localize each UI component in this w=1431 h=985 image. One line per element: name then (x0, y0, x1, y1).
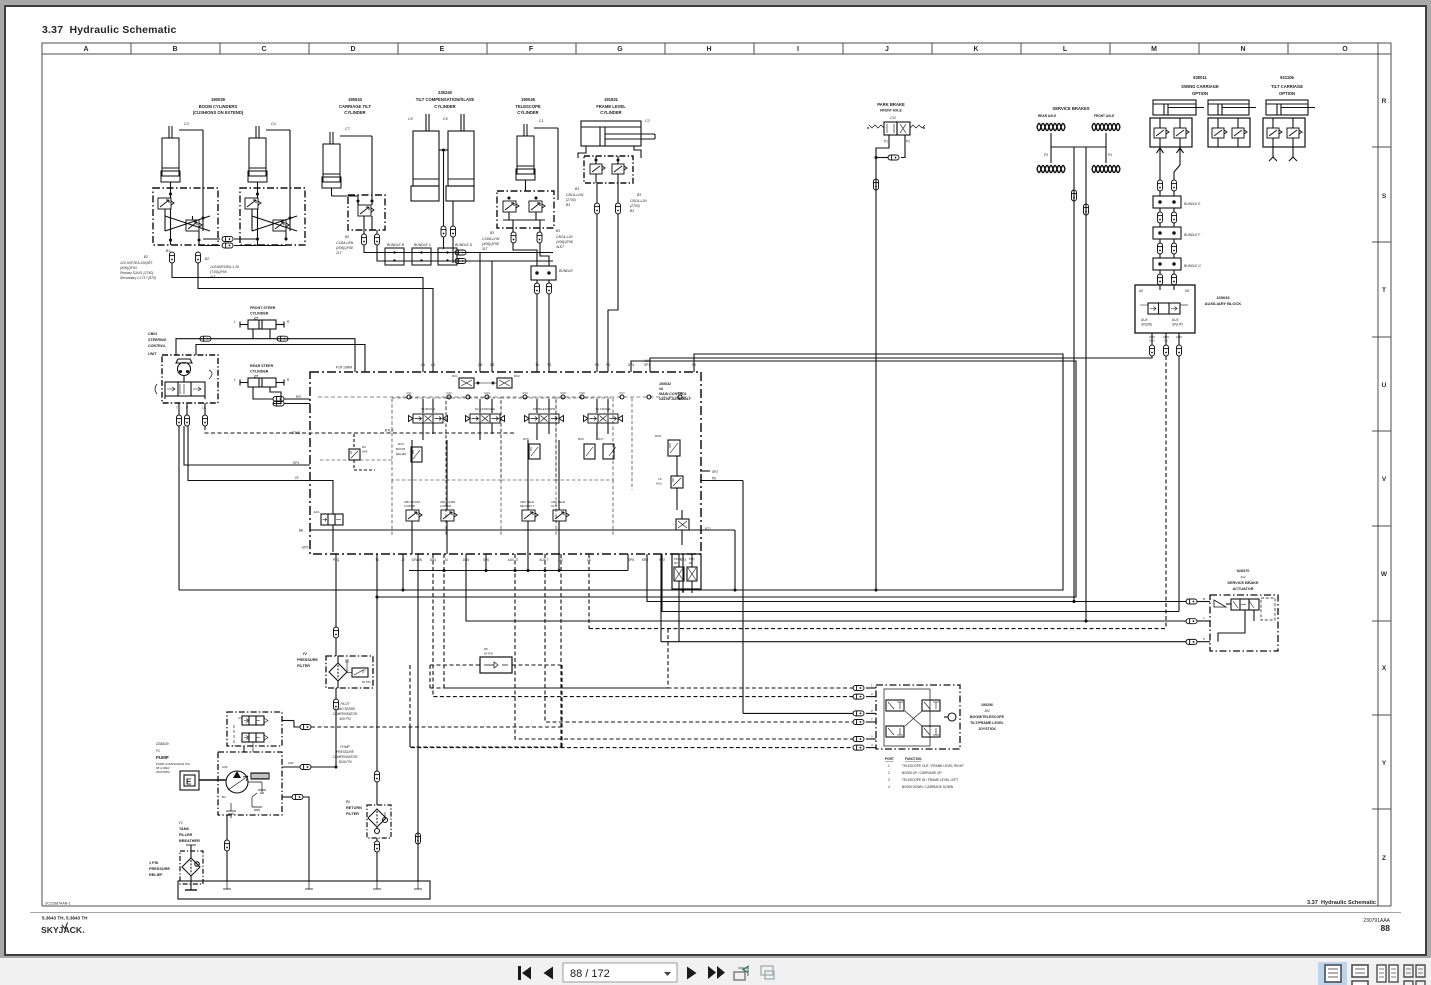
svg-text:BTLB: BTLB (385, 429, 394, 433)
svg-text:BREATHER: BREATHER (179, 839, 200, 843)
junction box 2 (412, 248, 431, 265)
svg-text:P: P (871, 709, 873, 713)
junction box 1 (385, 248, 404, 265)
internal dashed sections (320, 398, 632, 535)
connector joy T (853, 720, 864, 725)
wire slave drops (443, 237, 445, 249)
svg-text:CONTROL: CONTROL (148, 344, 166, 348)
svg-text:RV6: RV6 (578, 437, 584, 441)
svg-text:TELESCOPE OUT / FRAME LEVEL RI: TELESCOPE OUT / FRAME LEVEL RIGHT (902, 764, 964, 768)
port function table (885, 757, 964, 789)
grid column letters (83, 46, 1348, 53)
frame note left (566, 187, 584, 207)
svg-text:C3: C3 (184, 122, 189, 126)
svg-text:RETURN: RETURN (346, 806, 362, 810)
svg-text:RV8: RV8 (655, 434, 661, 438)
svg-text:(2700): (2700) (566, 198, 576, 202)
wire slave link (439, 149, 448, 151)
svg-text:STEERING: STEERING (148, 338, 167, 342)
junction row bus (384, 252, 553, 254)
svg-text:B3: B3 (630, 209, 634, 213)
pilot valve R4 (349, 434, 375, 470)
wire CB drop (466, 261, 492, 372)
frame level title (596, 97, 626, 115)
two page continuous (1404, 965, 1425, 985)
frame relief valves (578, 437, 616, 459)
svg-text:LB: LB (431, 363, 435, 367)
connector steer T (177, 415, 182, 426)
svg-text:LA: LA (421, 363, 426, 367)
svg-text:C12: C12 (890, 116, 896, 120)
svg-text:S3 TELESCOPE: S3 TELESCOPE (533, 407, 555, 411)
svg-text:CBCA-LJN: CBCA-LJN (630, 199, 647, 203)
svg-text:SERVICE BRAKE: SERVICE BRAKE (1227, 581, 1259, 585)
svg-text:C2: C2 (645, 119, 650, 123)
connector filter (334, 699, 339, 710)
svg-text:W: W (1381, 571, 1388, 578)
joystick 190256 (876, 685, 960, 749)
svg-text:B3: B3 (575, 187, 579, 191)
wire manifold T1 drop to return filter (376, 554, 378, 597)
svg-text:SP5: SP5 (628, 558, 634, 562)
pilot comp line (282, 720, 294, 722)
svg-text:PORT: PORT (885, 757, 894, 761)
priority valve EV1 (314, 510, 343, 525)
svg-text:T: T (1382, 287, 1386, 294)
svg-text:190039: 190039 (211, 97, 226, 102)
connector steer run 1 (200, 336, 211, 341)
svg-text:P3: P3 (1044, 153, 1048, 157)
connector aux SP1 (1150, 345, 1155, 356)
svg-text:12X.6XF2EA-03/QBT: 12X.6XF2EA-03/QBT (120, 261, 153, 265)
wire steer top runs (176, 339, 355, 372)
svg-text:AUX T: AUX T (539, 558, 548, 562)
svg-text:B3: B3 (556, 229, 560, 233)
svg-text:(X06)QF68: (X06)QF68 (482, 242, 499, 246)
svg-text:1: 1 (871, 684, 873, 688)
svg-text:C5: C5 (408, 117, 413, 121)
carriage tilt title (339, 97, 371, 115)
svg-text:ACTUATOR: ACTUATOR (1233, 587, 1254, 591)
svg-text:COMPENSATOR: COMPENSATOR (333, 755, 358, 759)
wire TB (539, 228, 541, 232)
svg-text:CV2: CV2 (446, 391, 452, 395)
svg-text:1: 1 (888, 764, 890, 768)
wire aux SP1 long (650, 356, 1152, 372)
actuator port B (1186, 599, 1197, 604)
manifold label (659, 382, 692, 401)
swing cylinder 2 (1208, 100, 1256, 115)
svg-text:RELIEF: RELIEF (396, 452, 407, 456)
connector pilot (300, 725, 311, 730)
svg-text:COMPENSATOR: COMPENSATOR (333, 712, 358, 716)
connector MB (222, 243, 233, 248)
svg-text:BT1: BT1 (705, 527, 711, 531)
svg-text:L: L (1063, 46, 1068, 53)
svg-text:5.3643 TH, 5.3843 TH: 5.3643 TH, 5.3843 TH (42, 916, 88, 921)
boom valve note 2 (205, 257, 239, 279)
svg-text:R4: R4 (362, 445, 366, 449)
svg-text:P6: P6 (712, 477, 716, 481)
telescope valve box (497, 191, 554, 228)
tank (178, 881, 430, 899)
tank breather label (179, 821, 200, 843)
svg-text:L: L (234, 320, 236, 324)
boom spool valve (409, 399, 448, 440)
steering control unit label (148, 332, 167, 356)
pump main box (218, 752, 282, 817)
pump B4 line (282, 796, 292, 798)
svg-text:P2: P2 (906, 140, 910, 144)
wire actuator T run (466, 554, 1186, 621)
svg-text:B2: B2 (144, 255, 148, 259)
connector stack TB2 (547, 283, 552, 294)
svg-text:CYLINDER: CYLINDER (250, 312, 269, 316)
tele note left (482, 231, 500, 251)
two page (1377, 965, 1398, 982)
connector stack FA (595, 203, 600, 214)
service brake actuator label (1227, 569, 1259, 591)
svg-text:T: T (176, 406, 178, 410)
R5 dashed lines (410, 629, 668, 747)
frame spool valve (584, 399, 623, 440)
connector joy 2 (853, 694, 864, 699)
pressure relief F3 (180, 845, 203, 890)
connector stack TA2 (535, 283, 540, 294)
svg-text:88 / 172: 88 / 172 (570, 968, 610, 980)
svg-text:R: R (1382, 98, 1387, 105)
wire BT1 drop (734, 530, 736, 590)
svg-text:CBCA-LJN: CBCA-LJN (556, 235, 573, 239)
svg-text:2: 2 (871, 692, 873, 696)
svg-text:CV6: CV6 (579, 391, 585, 395)
connector park drop (874, 179, 879, 190)
svg-text:LOWER: LOWER (404, 504, 416, 508)
tilt comp title (416, 90, 475, 109)
svg-text:400 PSI: 400 PSI (339, 717, 350, 721)
prev view button (734, 966, 749, 980)
svg-text:CA: CA (478, 363, 483, 367)
connector stack slave A (441, 226, 446, 237)
wire steer P to manifold GP4 (184, 426, 310, 465)
telescope cylinder C1 (516, 124, 535, 180)
return filter label (346, 800, 362, 816)
wire brake drop right (1085, 147, 1087, 621)
aux port drops (1151, 333, 1153, 345)
svg-text:CB01: CB01 (148, 332, 157, 336)
svg-text:FRONT STEER: FRONT STEER (250, 306, 276, 310)
pilot comp note (333, 702, 358, 721)
svg-text:BOOM DOWN / CARRIAGE DOWN: BOOM DOWN / CARRIAGE DOWN (902, 785, 954, 789)
svg-text:4: 4 (888, 785, 890, 789)
svg-text:T: T (871, 718, 873, 722)
connector steer LS (203, 415, 208, 426)
connector brake left (1072, 190, 1077, 201)
svg-text:CF: CF (295, 476, 299, 480)
wire actuator B run (647, 554, 1186, 602)
wire aux L6 run dashed (588, 554, 590, 629)
svg-text:190045: 190045 (521, 97, 536, 102)
svg-text:SP1: SP1 (644, 363, 650, 367)
svg-text:228829: 228829 (156, 742, 169, 746)
svg-text:A4P: A4P (288, 761, 294, 765)
pump label (156, 742, 190, 774)
svg-text:921106: 921106 (1280, 75, 1294, 80)
counterbalance valve row (404, 440, 569, 554)
skyjack logo (41, 923, 84, 936)
wire FB2 (608, 225, 618, 372)
svg-text:Y: Y (1382, 760, 1387, 767)
wire joy 1 run (444, 554, 853, 688)
svg-text:TANK: TANK (179, 827, 190, 831)
svg-text:CARRIAGE TILT: CARRIAGE TILT (339, 104, 371, 109)
svg-text:(X06)QF63: (X06)QF63 (120, 266, 137, 270)
grid column dividers (131, 43, 1378, 54)
svg-text:RV1: RV1 (452, 374, 458, 378)
svg-text:AV6: AV6 (362, 450, 368, 454)
svg-text:PRESSURE: PRESSURE (336, 750, 354, 754)
connector joy 3 (853, 737, 864, 742)
wire manifold P1Q drop to filter (335, 554, 337, 627)
connector rear steer B (273, 401, 284, 406)
actuator port P (1186, 639, 1197, 644)
page number box (563, 963, 677, 982)
svg-text:P1: P1 (884, 140, 888, 144)
svg-text:R: R (287, 320, 290, 324)
svg-text:190256: 190256 (981, 703, 993, 707)
connector swing A (1158, 180, 1163, 191)
svg-text:TILT/FRAME LEVEL: TILT/FRAME LEVEL (970, 721, 1004, 725)
connector park P2 (888, 155, 899, 160)
connector stack TB (537, 232, 542, 243)
wire joy T run dashed (545, 554, 853, 722)
wire TA2 (536, 280, 538, 283)
LS aux valve (656, 456, 683, 510)
svg-text:BUNDLE D: BUNDLE D (455, 243, 473, 247)
connector drain (416, 833, 421, 844)
swing carriage title (1181, 75, 1219, 96)
connector stack CA (362, 234, 367, 245)
tilt carriage stubs (1269, 147, 1277, 161)
telescope title (515, 97, 541, 115)
svg-text:BOOM CYLINDERS: BOOM CYLINDERS (199, 104, 238, 109)
svg-text:#6: #6 (659, 387, 664, 391)
wire LB run (198, 263, 433, 372)
wire cyl C4 to box (257, 182, 259, 188)
connector steer P (185, 415, 190, 426)
wire TB2 (548, 280, 550, 283)
svg-text:BUNDLE: BUNDLE (559, 269, 573, 273)
svg-text:PRESSURE: PRESSURE (297, 658, 318, 662)
tele junction box (531, 266, 556, 280)
wire park brake end (875, 589, 877, 591)
svg-text:REAR STEER: REAR STEER (250, 364, 274, 368)
swing valve box 2 (1208, 118, 1250, 147)
svg-text:CV3: CV3 (484, 391, 490, 395)
footer rule (30, 912, 1401, 914)
rear steer cylinder (234, 378, 290, 387)
wire rear steer ports (253, 387, 273, 399)
wire CF to priority valve (188, 426, 333, 514)
svg-text:4LKT: 4LKT (556, 245, 565, 249)
svg-text:RELIEF: RELIEF (149, 873, 163, 877)
connector return bottom (375, 841, 380, 852)
svg-text:Z: Z (1382, 855, 1386, 862)
svg-text:CXDA-LBN: CXDA-LBN (336, 241, 354, 245)
connector pump A4 (300, 765, 311, 770)
wire actuator P run (660, 554, 662, 642)
wire park brake P1 (876, 140, 889, 590)
E5 aux valve block (672, 554, 701, 642)
svg-text:OPTION: OPTION (1279, 91, 1295, 96)
svg-text:LOAD SENSE: LOAD SENSE (335, 707, 356, 711)
svg-text:D: D (350, 46, 355, 53)
svg-text:EV1: EV1 (314, 510, 320, 514)
prev page button (544, 967, 554, 980)
svg-text:GP4: GP4 (293, 461, 300, 465)
svg-text:SP(UP): SP(UP) (1172, 323, 1183, 327)
front steer cylinder title (250, 306, 276, 321)
frame level cylinder C2 (581, 121, 655, 146)
park brake title (877, 102, 905, 113)
svg-text:FRAME LEVEL: FRAME LEVEL (596, 104, 626, 109)
pump comp note (333, 745, 358, 764)
swing chain jbox 1 (1159, 191, 1161, 196)
wire CA drop (466, 253, 480, 373)
svg-text:TA: TA (535, 363, 540, 367)
connector return top (375, 771, 380, 782)
svg-text:FILTER: FILTER (297, 664, 310, 668)
svg-text:4: 4 (871, 743, 873, 747)
svg-text:C7: C7 (345, 127, 351, 131)
svg-text:BUNDLE F: BUNDLE F (1184, 233, 1201, 237)
svg-text:J61: J61 (983, 709, 990, 713)
svg-text:G: G (617, 46, 623, 53)
svg-text:169032: 169032 (659, 382, 671, 386)
svg-text:3: 3 (871, 735, 873, 739)
connector CA2 (455, 250, 466, 255)
toolbar controls (518, 963, 774, 982)
svg-text:RV7: RV7 (598, 437, 604, 441)
svg-text:K: K (973, 46, 978, 53)
wire P6 loop (179, 354, 1063, 590)
connector B4 (292, 795, 303, 800)
svg-text:VALVE ASSEMBLY: VALVE ASSEMBLY (659, 397, 692, 401)
slave cylinder C6 (446, 114, 474, 201)
wire CB run (376, 230, 378, 234)
svg-text:BOOM UP / CARRIAGE UP: BOOM UP / CARRIAGE UP (902, 771, 942, 775)
aux solenoid valve right (676, 510, 689, 545)
svg-text:A: A (83, 46, 88, 53)
brake coil rear top (1037, 124, 1065, 131)
svg-text:CV4: CV4 (522, 391, 528, 395)
svg-text:B3: B3 (566, 203, 570, 207)
connector chain 2 (1159, 208, 1161, 212)
svg-text:M: M (1151, 46, 1157, 53)
telescope spool valve (525, 399, 564, 440)
wire park brake P2 (901, 140, 905, 158)
svg-text:FILLER: FILLER (179, 833, 193, 837)
main control valve manifold 169032 (310, 372, 701, 554)
connector stack TA (511, 232, 516, 243)
svg-text:TELESCOPE IN / FRAME LEVEL LEF: TELESCOPE IN / FRAME LEVEL LEFT (902, 778, 958, 782)
junction box 3 (438, 248, 457, 265)
svg-text:SKYJACK: SKYJACK (41, 925, 83, 935)
aux block label (1205, 295, 1242, 306)
svg-text:DRAIN: DRAIN (412, 558, 423, 562)
svg-text:B: B (1203, 597, 1205, 601)
svg-text:1CEA6F32EA-1.26: 1CEA6F32EA-1.26 (210, 265, 239, 269)
svg-text:(X06)QF68: (X06)QF68 (556, 240, 573, 244)
carriage tilt cylinder C7 (322, 132, 341, 188)
last page button (708, 966, 725, 979)
pressure filter label (297, 652, 318, 668)
svg-text:CV7: CV7 (619, 391, 625, 395)
tilt port note (335, 235, 354, 255)
tilt carriage valve box (1263, 118, 1305, 147)
wire joy P run (743, 712, 853, 714)
wire pump top (243, 746, 245, 752)
connector swing B (1172, 180, 1177, 191)
svg-text:PILOT: PILOT (340, 702, 350, 706)
svg-text:F2: F2 (179, 821, 183, 825)
side relief valve (655, 434, 680, 456)
svg-text:BUNDLE B: BUNDLE B (387, 243, 405, 247)
svg-text:CYLINDER: CYLINDER (344, 110, 365, 115)
svg-text:FRONT AXLE: FRONT AXLE (880, 109, 902, 113)
svg-text:P4: P4 (1108, 153, 1112, 157)
connector steer run 2 (277, 336, 288, 341)
wire brake drop left (1073, 147, 1075, 602)
svg-text:3: 3 (888, 778, 890, 782)
wire return filter up (376, 597, 378, 771)
svg-text:(X06)QF68: (X06)QF68 (336, 246, 353, 250)
boom relief valve (396, 442, 422, 462)
wire rear steer to manifold (284, 398, 310, 400)
wire tele cyl to box (525, 180, 527, 191)
connector aux L6 (1164, 345, 1169, 356)
row letters (1381, 98, 1388, 862)
svg-text:CYLINDER: CYLINDER (250, 370, 269, 374)
svg-text:H: H (706, 46, 711, 53)
single page (active) (1318, 962, 1347, 985)
R5 check valve (480, 647, 512, 673)
connector aux T (1177, 345, 1182, 356)
wire steer T long to tank bus (178, 426, 180, 590)
svg-text:J4: J4 (444, 558, 448, 562)
svg-text:T: T (1203, 617, 1205, 621)
svg-text:B: B (172, 46, 177, 53)
wire filter down (335, 688, 337, 699)
svg-text:F1: F1 (346, 800, 350, 804)
row letter ticks (1372, 147, 1391, 809)
continuous scroll (1352, 965, 1368, 985)
svg-text:(T16)QF66: (T16)QF66 (210, 270, 227, 274)
svg-text:SP(DN): SP(DN) (1141, 323, 1152, 327)
wire joy 2 run dashed (433, 554, 853, 697)
svg-text:A4P: A4P (222, 765, 228, 769)
svg-text:AUXILIARY BLOCK: AUXILIARY BLOCK (1205, 301, 1242, 306)
svg-text:PUMP: PUMP (340, 745, 350, 749)
pressure relief label (149, 861, 170, 877)
svg-text:928370: 928370 (1237, 569, 1250, 573)
wire breather (226, 815, 228, 840)
svg-text:SWING CARRIAGE: SWING CARRIAGE (1181, 84, 1219, 89)
connector breather (225, 840, 230, 851)
svg-text:B1: B1 (166, 249, 170, 253)
svg-text:SERVICE BRAKES: SERVICE BRAKES (1052, 106, 1089, 111)
svg-text:CV5: CV5 (560, 391, 566, 395)
